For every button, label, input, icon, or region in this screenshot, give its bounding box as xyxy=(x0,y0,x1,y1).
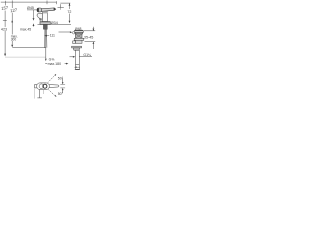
svg-text:50°: 50° xyxy=(58,77,64,81)
drain drawing bottom right xyxy=(45,46,92,69)
svg-text:35-45: 35-45 xyxy=(84,35,93,39)
floor gray line xyxy=(5,56,46,58)
svg-text:G⅜: G⅜ xyxy=(49,58,55,62)
max300 bottom arrow xyxy=(11,45,13,48)
svg-text:111: 111 xyxy=(50,34,55,38)
spout tip bracket xyxy=(35,85,38,88)
max180 arrow xyxy=(65,63,67,65)
dimension lines group xyxy=(1,0,71,57)
tick at spout tip extension xyxy=(46,1,48,5)
spout down line xyxy=(39,90,41,98)
svg-text:50°: 50° xyxy=(58,92,64,96)
spout-outlet tick on line A xyxy=(3,20,7,22)
body stadium xyxy=(37,83,50,90)
extension/dim line A (423) xyxy=(4,1,6,6)
small dim arrows at lever tip xyxy=(62,78,64,83)
G 1 1/4 leader xyxy=(79,56,83,58)
circle B thick xyxy=(43,84,47,88)
svg-text:423: 423 xyxy=(1,28,7,32)
svg-text:max.45: max.45 xyxy=(20,27,31,31)
dim line B (127 / max300) xyxy=(11,0,13,8)
lever top view xyxy=(49,85,59,88)
circle A xyxy=(39,84,44,89)
detail leader arrow xyxy=(59,31,71,33)
body xyxy=(42,11,47,21)
hose-end reference line xyxy=(12,47,46,49)
lever knob xyxy=(37,8,42,12)
rod xyxy=(45,29,47,58)
72 dimension line xyxy=(69,3,71,9)
svg-text:G1¼: G1¼ xyxy=(83,53,91,57)
35-45 ext lines xyxy=(84,30,95,32)
swing arrow tips xyxy=(55,74,57,76)
lever nub tick xyxy=(59,7,61,10)
base escutcheon xyxy=(40,22,50,25)
bottom left arrow at pipe end xyxy=(76,66,80,68)
top dimension line xyxy=(1,1,57,3)
arrow to pipe left xyxy=(70,56,74,58)
aerator dark tip xyxy=(39,18,42,21)
left thin line xyxy=(34,88,36,98)
423 bottom arrow xyxy=(4,54,6,57)
svg-text:Ø45: Ø45 xyxy=(27,6,34,10)
svg-text:72: 72 xyxy=(67,10,71,14)
spout nose xyxy=(37,13,42,19)
O45 underline + leader xyxy=(27,9,37,11)
hoses xyxy=(44,29,46,48)
faucet side view xyxy=(37,7,75,62)
line B up arrow at spout outlet level xyxy=(11,20,13,23)
dash before max180 xyxy=(45,62,47,64)
svg-text:Ø48: Ø48 xyxy=(75,27,82,31)
counter line xyxy=(38,23,72,25)
texts xyxy=(1,5,93,96)
111 leader arrow xyxy=(44,35,49,37)
svg-text:Ø34: Ø34 xyxy=(51,21,58,25)
dashed 50 deg lines xyxy=(48,75,56,97)
callout circle xyxy=(72,31,75,34)
shank below counter xyxy=(43,24,47,29)
max45 up arrow below counter xyxy=(33,25,35,28)
svg-text:300: 300 xyxy=(11,38,17,42)
72 extension lines xyxy=(60,2,70,4)
35-45 dim line xyxy=(92,27,94,31)
lever arm xyxy=(42,8,56,11)
top view bottom xyxy=(35,74,66,99)
mounting detail right xyxy=(73,27,96,49)
svg-text:max.180: max.180 xyxy=(48,62,61,66)
